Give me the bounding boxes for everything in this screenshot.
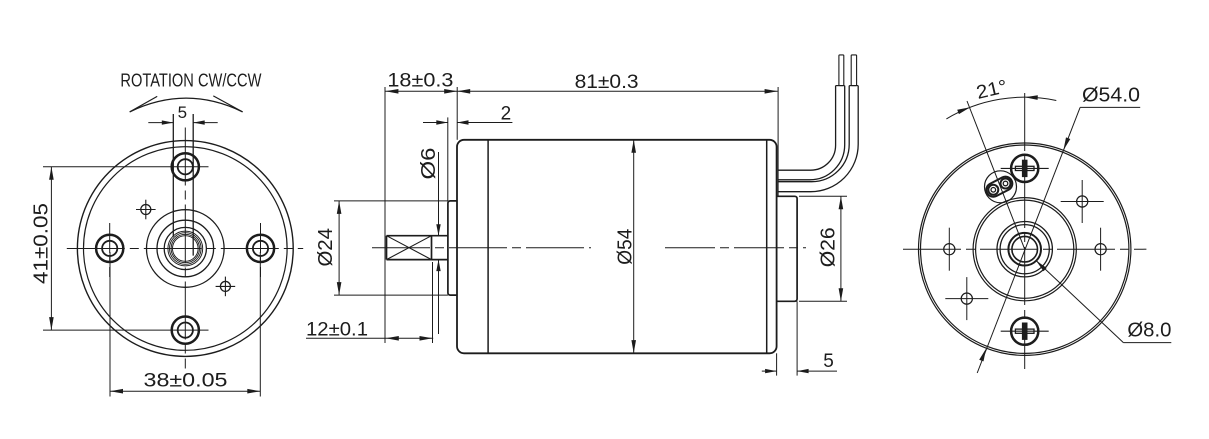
d8.0 leader: [1036, 260, 1171, 342]
shaft knurl cross: [387, 236, 432, 260]
rear view vertical centerline: [1024, 93, 1026, 369]
rear view top screw: [1001, 155, 1049, 182]
front view horizontal centerline: [67, 248, 303, 250]
rear view left vent hole: [944, 228, 955, 271]
rear view right vent hole: [1095, 228, 1106, 271]
dimension d54 line: [631, 140, 636, 353]
svg-text:Ø6: Ø6: [418, 148, 440, 180]
rear view end bell circles: [973, 198, 1076, 301]
rear bell seam: [766, 140, 768, 353]
rear housing: [777, 196, 797, 301]
front view tab edge right: [192, 114, 194, 256]
front view flange inner circle: [84, 147, 288, 351]
svg-text:38±0.05: 38±0.05: [144, 371, 228, 392]
rear view horizontal centerline: [903, 248, 1146, 250]
front view left mounting hole: [96, 235, 123, 262]
rear view bearing circles: [1008, 233, 1041, 266]
dimension d6 text: [418, 148, 440, 180]
dimension 5 text: [178, 103, 187, 122]
dimension 81 text: [575, 72, 639, 93]
left hole centerline: [109, 223, 111, 277]
dimension 38 text: [144, 371, 228, 392]
wire 1: [778, 55, 845, 180]
dimension rear5 text: [823, 351, 834, 372]
dimension 12 text: [306, 320, 368, 341]
dimension rear5 lines: [762, 369, 837, 373]
dimension rear5 extension lines: [777, 301, 798, 375]
svg-text:Ø8.0: Ø8.0: [1127, 320, 1171, 342]
svg-text:Ø26: Ø26: [818, 227, 840, 267]
rear view outer circles: [918, 143, 1130, 355]
right hole centerline: [260, 223, 262, 277]
svg-text:Ø54.0: Ø54.0: [1082, 85, 1140, 107]
wire 2: [778, 55, 858, 192]
d8.0 text: [1127, 320, 1171, 342]
motor body: [457, 140, 777, 353]
rear view lower-left vent hole: [945, 277, 988, 320]
dimension 18 text: [387, 71, 453, 92]
21 degree extension line: [967, 101, 1025, 249]
dimension 12 extension line: [432, 262, 434, 343]
front bell seam: [487, 140, 489, 352]
front view upper-left cross marker: [136, 200, 156, 220]
front view lower-right cross marker: [216, 277, 236, 297]
front view top mounting hole: [172, 153, 199, 180]
dimension 41 line: [49, 167, 54, 330]
dimension 38 extension lines: [110, 252, 260, 397]
svg-text:5: 5: [178, 103, 187, 122]
dimension d26 extension lines: [799, 196, 847, 301]
dimension 81 line: [457, 89, 777, 94]
dimension 18 line: [385, 89, 457, 94]
dimension d26 line: [839, 196, 844, 301]
dimension d24 line: [337, 201, 342, 295]
front collar: [448, 201, 457, 295]
dimension d24 extension lines: [334, 201, 448, 295]
d54.0 leader: [977, 107, 1140, 373]
wire grommet: [984, 171, 1017, 203]
dimension 2 lines: [423, 120, 512, 124]
svg-text:5: 5: [823, 351, 834, 372]
front view vertical centerline: [184, 128, 186, 369]
side view centerline: [372, 247, 806, 249]
rear view upper-right vent hole: [1061, 180, 1104, 223]
rotation arc: [130, 96, 243, 112]
front view boss circle: [147, 210, 225, 288]
svg-text:21°: 21°: [974, 76, 1009, 103]
dimension 41 extension lines: [43, 167, 209, 330]
21 degree text: [974, 76, 1009, 103]
front view tab edge left: [172, 114, 174, 237]
svg-text:18±0.3: 18±0.3: [387, 71, 453, 92]
rear view bearing retainer circles: [997, 222, 1052, 277]
svg-text:2: 2: [501, 104, 512, 125]
rotation text: [120, 71, 261, 91]
dimension 2 extension line: [447, 117, 449, 200]
rear view bottom screw: [1001, 318, 1049, 345]
dimension d6 lines: [436, 152, 440, 334]
21 degree arc: [946, 95, 1056, 119]
front view bottom mounting hole: [172, 317, 199, 344]
svg-text:81±0.3: 81±0.3: [575, 72, 639, 93]
svg-text:ROTATION CW/CCW: ROTATION CW/CCW: [120, 71, 261, 91]
dimension d54 text: [615, 229, 637, 265]
svg-text:41±0.05: 41±0.05: [31, 203, 53, 284]
shaft outline: [387, 236, 448, 260]
svg-text:Ø54: Ø54: [615, 229, 637, 265]
front view shaft knurl circles: [168, 231, 203, 266]
dimension 5 lines: [148, 120, 217, 124]
dimension 18-81 extension lines: [385, 87, 778, 343]
svg-text:Ø24: Ø24: [315, 228, 337, 266]
dimension d26 text: [818, 227, 840, 267]
svg-text:12±0.1: 12±0.1: [306, 320, 368, 341]
front view body outer circle: [77, 141, 293, 357]
dimension 41 text: [31, 203, 53, 284]
front view collar circle: [157, 220, 214, 277]
dimension 38 line: [110, 389, 260, 394]
d54.0 text: [1082, 85, 1140, 107]
front view right mounting hole: [247, 235, 274, 262]
dimension d24 text: [315, 228, 337, 266]
front view bearing circle: [164, 227, 206, 269]
dimension 12 line: [306, 336, 433, 341]
dimension 2 text: [501, 104, 512, 125]
